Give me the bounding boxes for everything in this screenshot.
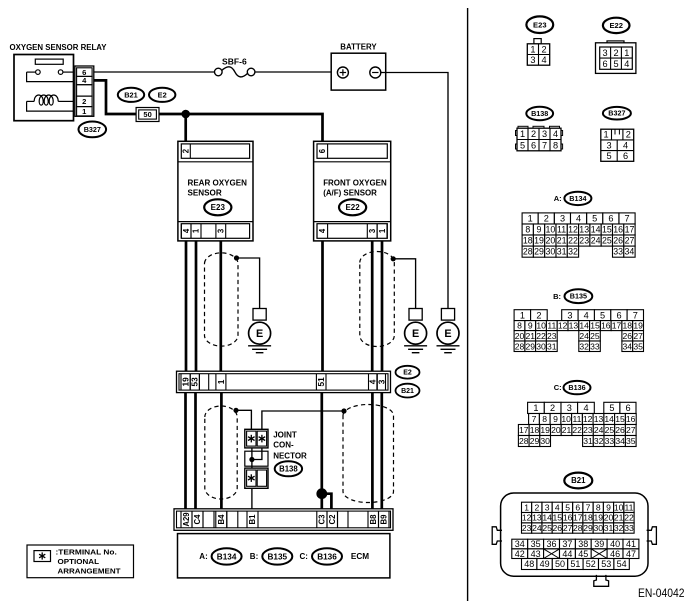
svg-text:19: 19 [534,236,544,246]
svg-text:B:: B: [250,552,258,561]
svg-text:3: 3 [542,129,547,139]
junction dot C3/C2 [316,488,327,499]
shield drain dot (front, upper) [391,256,396,261]
svg-text:30: 30 [540,436,550,446]
svg-text:EN-04042: EN-04042 [638,588,685,600]
svg-text:51: 51 [316,377,326,387]
svg-text:24: 24 [532,523,542,533]
svg-text:39: 39 [594,539,604,549]
svg-text:1: 1 [520,129,525,139]
svg-text:21: 21 [562,425,572,435]
svg-text:1: 1 [192,228,201,233]
svg-text:16: 16 [626,414,636,424]
svg-text:5: 5 [600,310,605,320]
svg-text:CON-: CON- [273,441,294,450]
svg-text:3: 3 [567,403,572,413]
svg-text:2: 2 [550,403,555,413]
wire: relay pin6 to fuse SBF-6 to battery positive [94,71,338,73]
svg-text:2: 2 [536,310,541,320]
svg-text:48: 48 [524,559,534,569]
svg-text:25: 25 [542,523,552,533]
svg-text:12: 12 [558,321,568,331]
svg-text:4: 4 [318,228,327,233]
svg-text:33: 33 [590,341,600,351]
relay connector terminal strip (6,4,2,1) [75,66,94,116]
svg-text:B21: B21 [571,476,586,485]
svg-text:C4: C4 [193,514,202,525]
svg-text:B8: B8 [369,514,378,525]
svg-text:3: 3 [217,228,226,233]
svg-text:OXYGEN SENSOR RELAY: OXYGEN SENSOR RELAY [10,43,108,52]
svg-text:2: 2 [531,129,536,139]
svg-text:31: 31 [583,436,593,446]
svg-text:33: 33 [624,523,634,533]
svg-text:11: 11 [557,225,566,235]
svg-text:16: 16 [601,321,611,331]
svg-text:B4: B4 [217,514,226,525]
svg-text::TERMINAL No.: :TERMINAL No. [56,547,117,556]
connector ellipse B21 (top) [118,88,144,102]
svg-text:17: 17 [625,225,635,235]
legend: terminal optional arrangement [27,545,134,578]
wire: front shield drain to ground [393,259,415,309]
svg-text:5: 5 [520,140,525,150]
svg-text:8: 8 [553,140,558,150]
shielded cable (lower left) [205,406,237,499]
svg-text:21: 21 [614,513,624,523]
svg-text:28: 28 [573,523,583,533]
svg-text:B134: B134 [569,194,586,203]
svg-text:E2: E2 [158,90,167,99]
svg-text:1: 1 [524,502,529,512]
svg-text:10: 10 [614,502,624,512]
separator line [467,8,469,601]
ground E (front shield) [404,309,427,353]
svg-text:8: 8 [517,321,522,331]
svg-text:ECM: ECM [351,552,370,561]
svg-text:7: 7 [624,214,629,224]
svg-text:31: 31 [547,341,557,351]
svg-text:A:: A: [199,552,207,561]
svg-text:E22: E22 [345,203,360,212]
svg-text:2: 2 [544,214,549,224]
svg-text:BATTERY: BATTERY [340,42,377,51]
connector view E22 [596,18,636,74]
svg-text:C2: C2 [328,514,337,525]
svg-text:B138: B138 [279,465,298,474]
svg-text:7: 7 [633,310,638,320]
connector view E23 [526,16,553,65]
svg-text:4: 4 [623,140,628,150]
svg-text:FRONT OXYGEN: FRONT OXYGEN [323,177,387,187]
svg-text:15: 15 [602,225,612,235]
wires: rear sensor pins 4,1,3 down to connector strip [186,241,221,372]
shield drain dot (rear, upper) [234,255,239,260]
junction dot on thick feed [181,110,190,119]
svg-text:32: 32 [594,436,604,446]
figure number EN-04042 [638,588,685,600]
svg-text:34: 34 [623,341,633,351]
shielded cable (rear, upper) [205,253,239,346]
svg-text:E: E [412,328,419,340]
svg-text:22: 22 [572,425,582,435]
wire: rear shield drain to ground [237,258,260,309]
svg-text:17: 17 [519,425,529,435]
svg-text:52: 52 [586,559,596,569]
svg-text:2: 2 [613,48,618,58]
svg-text:3: 3 [368,228,377,233]
connector ellipse E2 (top) [149,88,175,102]
svg-text:30: 30 [536,341,546,351]
svg-text:16: 16 [563,513,573,523]
svg-text:1: 1 [530,44,535,54]
svg-text:5: 5 [613,59,618,69]
svg-text:1: 1 [378,228,387,233]
svg-text:2: 2 [626,130,631,140]
svg-text:1: 1 [528,214,533,224]
svg-text:4: 4 [542,55,547,65]
svg-text:12: 12 [568,225,578,235]
svg-text:26: 26 [615,425,625,435]
connector view C:B136 [518,381,636,447]
svg-text:9: 9 [553,414,558,424]
svg-text:41: 41 [626,539,636,549]
front oxygen (A/F) sensor E22 [314,141,391,241]
svg-text:3: 3 [376,379,386,384]
svg-text:29: 29 [534,247,544,257]
svg-text:B136: B136 [317,552,337,561]
svg-text:24: 24 [579,331,589,341]
svg-text:13: 13 [579,225,589,235]
svg-text:JOINT: JOINT [273,430,297,439]
svg-text:B135: B135 [570,292,587,301]
svg-text:28: 28 [523,247,533,257]
svg-text:23: 23 [579,236,589,246]
svg-text:22: 22 [568,236,578,246]
svg-text:19: 19 [633,321,643,331]
wires: strip 4,3 down to ECM B8,B9 [372,393,381,509]
svg-text:B:: B: [553,292,561,301]
svg-text:35: 35 [633,341,643,351]
svg-text:15: 15 [553,513,563,523]
shield drain dot (lower right) [341,408,346,413]
svg-text:1: 1 [533,403,538,413]
svg-text:44: 44 [562,549,572,559]
svg-text:27: 27 [626,425,636,435]
svg-text:14: 14 [604,414,614,424]
svg-text:17: 17 [612,321,622,331]
svg-text:11: 11 [547,321,556,331]
connector ellipse B327 [79,121,107,137]
svg-text:29: 29 [530,436,540,446]
svg-text:7: 7 [586,502,591,512]
svg-text:53: 53 [601,559,611,569]
svg-text:50: 50 [143,110,151,119]
bulkhead connector strip B21/E2 [177,371,391,392]
svg-text:3: 3 [530,55,535,65]
svg-text:C:: C: [554,383,562,392]
svg-text:9: 9 [537,225,542,235]
svg-text:36: 36 [546,539,556,549]
wire: lower-left shield drain to joint connector [236,410,251,429]
ECM connector strip [174,509,393,531]
svg-text:11: 11 [573,414,582,424]
joint connector B138 [245,429,307,509]
svg-text:43: 43 [531,549,541,559]
svg-text:9: 9 [528,321,533,331]
svg-text:1: 1 [624,48,629,58]
connector ellipse B21 (mid strip) [396,384,420,398]
wires: strip down to ECM pins A29,C4,B4 [186,393,222,509]
svg-text:7: 7 [542,140,547,150]
fuse SBF-6 [215,58,255,77]
svg-text:34: 34 [625,247,635,257]
svg-text:18: 18 [523,236,533,246]
svg-text:2: 2 [535,502,540,512]
svg-text:4: 4 [583,403,588,413]
svg-text:E22: E22 [609,21,623,30]
svg-text:51: 51 [570,559,580,569]
svg-text:18: 18 [583,513,593,523]
svg-text:B9: B9 [380,514,389,525]
wire: relay pin4 thick feed through fuse 50 to front sensor pin6 [94,80,323,142]
svg-text:B136: B136 [568,383,585,392]
svg-text:3: 3 [545,502,550,512]
svg-text:26: 26 [553,523,563,533]
svg-text:22: 22 [536,331,546,341]
svg-text:25: 25 [602,236,612,246]
svg-text:7: 7 [532,414,537,424]
svg-text:4: 4 [576,214,581,224]
svg-text:25: 25 [605,425,615,435]
svg-text:B135: B135 [268,552,288,561]
svg-text:50: 50 [555,559,565,569]
connector ellipse B138 (joint) [275,461,302,476]
svg-text:12: 12 [583,414,593,424]
svg-text:(A/F) SENSOR: (A/F) SENSOR [323,188,377,198]
svg-text:6: 6 [575,502,580,512]
svg-text:53: 53 [190,377,200,387]
svg-text:30: 30 [594,523,604,533]
svg-text:20: 20 [604,513,614,523]
svg-text:27: 27 [625,236,635,246]
ground E (battery) [437,309,460,353]
connector view A:B134 [522,192,635,258]
svg-text:4: 4 [182,228,191,233]
svg-text:8: 8 [525,225,530,235]
connector view B138 [516,107,563,151]
svg-text:15: 15 [615,414,625,424]
svg-text:1: 1 [604,130,609,140]
svg-text:20: 20 [551,425,561,435]
svg-text:28: 28 [519,436,529,446]
shielded cable (front, upper) [360,251,395,346]
svg-text:2: 2 [182,148,191,153]
svg-text:5: 5 [609,403,614,413]
svg-text:REAR OXYGEN: REAR OXYGEN [188,177,248,187]
svg-text:B21: B21 [124,90,138,99]
svg-text:13: 13 [532,513,542,523]
connector view B327 [601,107,634,161]
svg-text:42: 42 [515,549,525,559]
svg-text:38: 38 [578,539,588,549]
svg-text:26: 26 [623,331,633,341]
svg-text:8: 8 [596,502,601,512]
svg-text:B21: B21 [401,388,414,395]
svg-text:E: E [444,328,451,340]
svg-text:E: E [256,328,263,340]
svg-text:8: 8 [542,414,547,424]
svg-text:3: 3 [606,140,611,150]
svg-text:B134: B134 [217,552,237,561]
svg-text:25: 25 [590,331,600,341]
svg-text:10: 10 [546,225,556,235]
svg-text:SENSOR: SENSOR [188,188,222,198]
svg-text:3: 3 [603,48,608,58]
svg-text:3: 3 [560,214,565,224]
svg-text:12: 12 [522,513,532,523]
svg-text:9: 9 [606,502,611,512]
svg-text:21: 21 [557,236,567,246]
svg-text:34: 34 [515,539,525,549]
rear oxygen sensor E23 [178,141,253,241]
svg-text:6: 6 [625,403,630,413]
wire: strip 51 down to ECM C3 with branch to C2 [322,393,332,509]
svg-text:35: 35 [626,436,636,446]
svg-text:20: 20 [515,331,525,341]
svg-text:B138: B138 [531,109,548,118]
svg-text:31: 31 [557,247,567,257]
svg-text:1: 1 [520,310,525,320]
svg-text:5: 5 [606,151,611,161]
svg-text:27: 27 [633,331,643,341]
svg-text:4: 4 [584,310,589,320]
svg-text:15: 15 [590,321,600,331]
svg-text:SBF-6: SBF-6 [222,58,247,67]
svg-text:26: 26 [613,236,623,246]
svg-text:13: 13 [569,321,579,331]
svg-text:E23: E23 [533,20,547,29]
svg-text:22: 22 [624,513,634,523]
svg-text:1: 1 [216,379,226,384]
svg-text:31: 31 [604,523,614,533]
svg-text:23: 23 [583,425,593,435]
svg-text:34: 34 [615,436,625,446]
svg-text:10: 10 [561,414,571,424]
ground E (rear shield) [248,309,271,353]
svg-text:33: 33 [613,247,623,257]
svg-text:B327: B327 [608,109,625,118]
svg-text:27: 27 [563,523,573,533]
shielded cable (lower right) [343,404,394,502]
svg-text:30: 30 [546,247,556,257]
svg-text:33: 33 [605,436,615,446]
svg-text:E23: E23 [211,203,226,212]
svg-text:28: 28 [515,341,525,351]
svg-text:18: 18 [623,321,633,331]
svg-text:47: 47 [626,549,636,559]
svg-text:32: 32 [614,523,624,533]
ECM box [178,534,390,578]
fuse 50 [136,108,159,122]
svg-text:19: 19 [594,513,604,523]
svg-text:54: 54 [617,559,627,569]
svg-text:24: 24 [591,236,601,246]
svg-text:45: 45 [578,549,588,559]
shield drain dot (lower left) [233,408,238,413]
svg-text:2: 2 [542,44,547,54]
svg-text:14: 14 [591,225,601,235]
svg-text:14: 14 [542,513,552,523]
svg-text:6: 6 [616,310,621,320]
svg-text:NECTOR: NECTOR [273,451,307,460]
svg-text:14: 14 [579,321,589,331]
svg-text:32: 32 [579,341,589,351]
svg-text:10: 10 [536,321,546,331]
wire: junction down to rear sensor pin2 [184,114,187,142]
svg-text:4: 4 [624,59,629,69]
oxygen sensor relay [10,43,108,121]
connector view B21 (ECM) [492,473,656,587]
svg-text:B1: B1 [248,514,257,525]
connector ellipse E2 (mid strip) [396,366,420,379]
svg-text:6: 6 [608,214,613,224]
svg-text:6: 6 [318,148,327,153]
svg-text:37: 37 [562,539,572,549]
svg-text:C:: C: [300,552,308,561]
svg-text:21: 21 [526,331,536,341]
battery [331,42,386,90]
svg-text:46: 46 [610,549,620,559]
svg-text:5: 5 [565,502,570,512]
wire: lower-right shield drain to joint connector [262,411,344,429]
svg-text:13: 13 [594,414,604,424]
svg-text:B327: B327 [84,125,101,134]
svg-text:OPTIONAL: OPTIONAL [58,557,100,566]
svg-text:C3: C3 [318,514,327,525]
svg-text:17: 17 [573,513,583,523]
svg-text:40: 40 [610,539,620,549]
connector view B:B135 [514,289,643,351]
svg-text:ARRANGEMENT: ARRANGEMENT [58,566,121,575]
svg-text:A:: A: [554,194,562,203]
svg-text:24: 24 [594,425,604,435]
svg-text:23: 23 [547,331,557,341]
svg-text:16: 16 [613,225,623,235]
svg-text:18: 18 [530,425,540,435]
svg-text:35: 35 [531,539,541,549]
wires: front sensor pins 4,3,1 down to connector strip [323,241,383,372]
svg-text:29: 29 [583,523,593,533]
svg-text:11: 11 [625,502,634,512]
svg-text:6: 6 [531,140,536,150]
svg-text:19: 19 [540,425,550,435]
svg-text:29: 29 [526,341,536,351]
svg-text:5: 5 [592,214,597,224]
svg-text:2: 2 [82,97,86,106]
svg-text:3: 3 [567,310,572,320]
svg-text:6: 6 [623,151,628,161]
svg-text:4: 4 [555,502,560,512]
svg-text:6: 6 [603,59,608,69]
svg-text:23: 23 [522,523,532,533]
svg-text:49: 49 [540,559,550,569]
svg-text:20: 20 [546,236,556,246]
wire: battery negative to ground [381,73,448,309]
svg-text:A29: A29 [182,512,191,527]
svg-text:E2: E2 [403,370,412,377]
svg-text:4: 4 [553,129,558,139]
